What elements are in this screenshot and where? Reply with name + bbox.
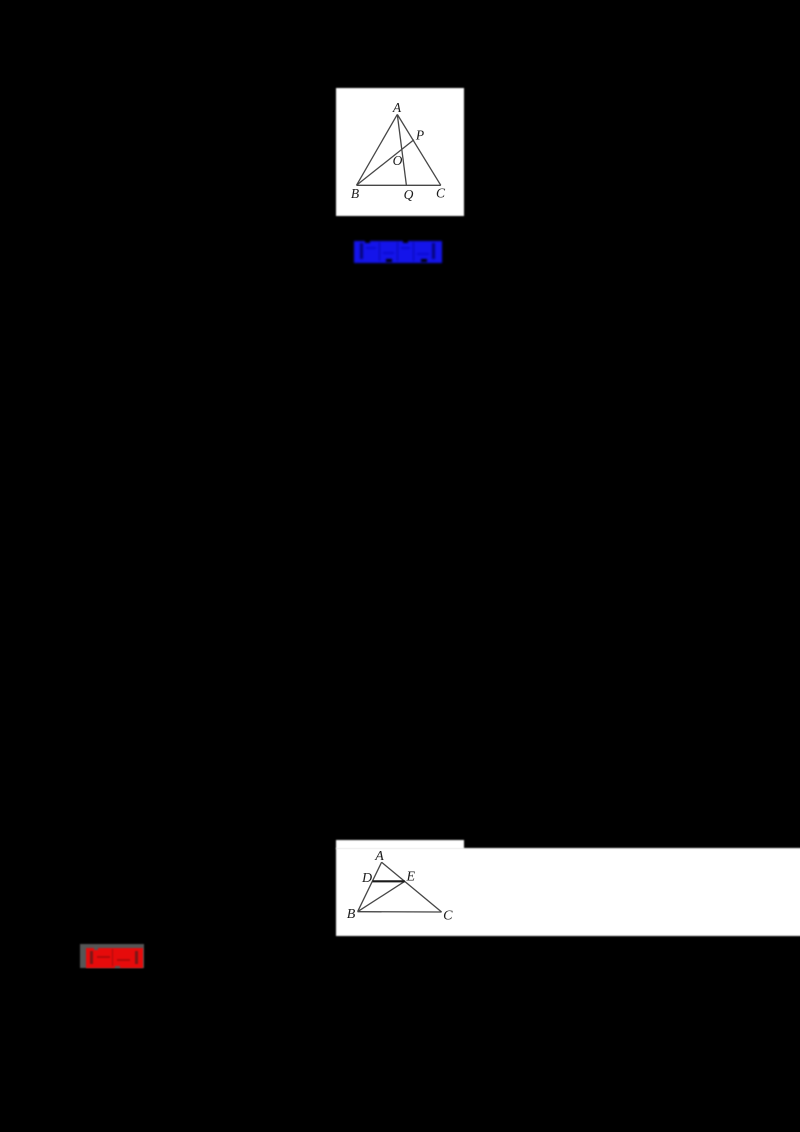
wire cevian BP <box>357 140 414 186</box>
svg-text:C: C <box>443 909 453 924</box>
texture slits <box>366 247 376 249</box>
gray callout box <box>80 944 144 968</box>
svg-text:O: O <box>393 153 403 168</box>
wire side AB <box>357 114 398 185</box>
figure panel 2: white tab <box>336 840 464 849</box>
glyph separation <box>112 949 113 966</box>
left bracket slit <box>360 243 363 259</box>
blue heading label <box>353 240 445 265</box>
svg-text:P: P <box>415 128 424 143</box>
wire cevian BE <box>358 881 405 911</box>
svg-text:E: E <box>406 870 416 885</box>
svg-text:C: C <box>436 186 446 201</box>
glyph separations <box>379 242 380 261</box>
wire segment DE (parallel to BC, drawn heavier) <box>373 880 405 882</box>
edge notches <box>94 948 98 950</box>
right bracket slit <box>135 951 138 964</box>
svg-text:Q: Q <box>404 187 414 202</box>
label body <box>86 948 143 968</box>
texture slits <box>97 956 110 958</box>
svg-text:B: B <box>351 186 359 201</box>
wire side AB <box>358 862 382 912</box>
wire cevian AQ <box>397 114 406 185</box>
wire side BC <box>357 184 441 186</box>
wire side BC <box>358 911 442 913</box>
svg-text:A: A <box>392 100 402 115</box>
wire side AC <box>382 862 442 912</box>
svg-text:D: D <box>361 871 372 886</box>
figure panel 1 (white box with triangle ABC, cevians AQ and BP meeting at O) <box>336 88 464 216</box>
wire side AC <box>397 114 441 185</box>
svg-text:B: B <box>347 907 356 922</box>
label body <box>354 241 442 263</box>
svg-text:A: A <box>374 849 384 864</box>
figure panel 2: white band <box>336 848 800 936</box>
left bracket slit <box>90 951 93 964</box>
right bracket slit <box>432 243 435 259</box>
edge notches <box>365 240 370 243</box>
red heading label <box>85 948 143 968</box>
